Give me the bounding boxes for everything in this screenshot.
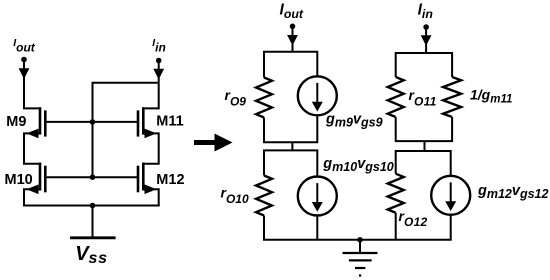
junction dot ground — [357, 237, 363, 243]
resistor rO9 — [256, 78, 272, 118]
wire box4 left bottom — [395, 213, 397, 240]
svg-text:rO9: rO9 — [225, 87, 247, 109]
svg-text:Iin: Iin — [418, 1, 433, 21]
node Iin (left circuit) label — [152, 37, 166, 55]
label rO12 — [399, 208, 428, 229]
wire stub box1-box2 — [291, 142, 293, 150]
resistor 1/gm11 — [443, 77, 461, 117]
current arrow Iin (left) — [153, 61, 164, 80]
label rO11 — [409, 87, 437, 109]
transistor M11 — [138, 107, 157, 138]
current arrow Iout (left) — [19, 60, 30, 80]
wire top rail box1 + sides — [264, 52, 317, 78]
label 1/gm11 — [470, 86, 512, 105]
current source gm12vgs12 — [431, 176, 470, 215]
current source gm10vgs10 — [298, 177, 337, 216]
wire M9 source to M10 drain — [24, 133, 40, 163]
wire Vss stub — [92, 206, 94, 238]
label gm9vgs9 — [325, 112, 383, 130]
wire Iin column — [143, 70, 158, 108]
svg-text:1/gm11: 1/gm11 — [470, 86, 512, 105]
wire box1 bottom rail + sides — [264, 115, 317, 142]
wire box4 right bottom — [450, 215, 452, 240]
label gm12vgs12 — [477, 183, 549, 201]
wire mid gate-bias vertical + diode connection horizontal — [93, 83, 159, 177]
node Iin terminal dot — [156, 58, 162, 64]
resistor rO11 — [388, 77, 404, 117]
wire Iin feed — [425, 36, 427, 53]
Vss bar — [70, 236, 116, 239]
svg-text:Iout: Iout — [13, 37, 36, 55]
wire box2 left bottom — [263, 216, 265, 240]
current arrow Iin (model) — [421, 27, 432, 46]
transistor M9 — [27, 107, 46, 138]
resistor rO10 — [256, 176, 272, 216]
big transform arrow — [194, 134, 233, 152]
wire ground rail — [263, 239, 452, 241]
node Iout (model) dot — [290, 24, 296, 30]
wire M10 source to rail — [24, 189, 28, 205]
label Vss — [75, 243, 108, 267]
svg-text:Iin: Iin — [152, 37, 166, 55]
ground — [343, 240, 378, 276]
wire M11 source to M12 drain — [143, 133, 158, 163]
svg-text:M11: M11 — [156, 114, 183, 130]
node Iin (model) label — [418, 1, 433, 21]
wire box2 right bottom — [316, 216, 318, 240]
label rO10 — [221, 185, 249, 207]
label gm10vgs10 — [322, 156, 394, 174]
svg-text:rO12: rO12 — [399, 208, 428, 229]
svg-text:M12: M12 — [156, 172, 184, 188]
junction dot gate row 2 — [90, 174, 96, 180]
junction dot rail — [90, 203, 96, 209]
svg-text:Vss: Vss — [75, 243, 108, 267]
transistor M12 — [138, 163, 157, 195]
svg-text:rO11: rO11 — [409, 87, 437, 109]
label M12 — [156, 172, 184, 188]
resistor rO12 — [388, 174, 404, 213]
label M11 — [156, 114, 183, 130]
svg-text:M10: M10 — [5, 172, 33, 188]
wire M12 source to rail — [155, 189, 159, 205]
node Iin (model) dot — [423, 24, 429, 30]
current source gm9vgs9 — [298, 76, 337, 115]
svg-text:gm9vgs9: gm9vgs9 — [325, 112, 383, 130]
transistor M10 — [27, 163, 46, 195]
wire gate row 1 (M9-M11 gates) — [47, 121, 138, 123]
wire Iout to M9 drain — [24, 70, 40, 108]
node Iout terminal dot — [21, 57, 27, 63]
label M10 — [5, 172, 33, 188]
junction dot gate row 1 — [90, 119, 96, 125]
label M9 — [6, 114, 26, 130]
wire box3 bottom rail + sides — [396, 117, 452, 141]
node Iout (model) label — [280, 1, 304, 21]
wire box4 top rail + sides — [396, 151, 451, 176]
svg-text:gm10vgs10: gm10vgs10 — [322, 156, 394, 174]
svg-text:gm12vgs12: gm12vgs12 — [477, 183, 549, 201]
current arrow Iout (model) — [287, 26, 298, 45]
wire box3 top rail + sides — [396, 53, 452, 77]
node Iout (left circuit) label — [13, 37, 36, 55]
label rO9 — [225, 87, 247, 109]
svg-text:M9: M9 — [6, 114, 26, 130]
svg-text:Iout: Iout — [280, 1, 304, 21]
wire box2 top rail + sides — [264, 150, 317, 176]
wire source rail — [23, 205, 160, 207]
svg-text:rO10: rO10 — [221, 185, 249, 207]
wire Iout feed — [292, 36, 294, 52]
wire gate row 2 (M10-M12 gates) — [47, 176, 138, 178]
wire stub box3-box4 — [424, 141, 426, 151]
